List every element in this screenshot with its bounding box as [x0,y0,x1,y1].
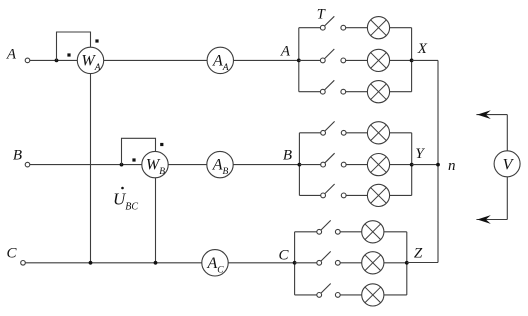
switch SA3 blade [325,80,335,90]
wire lamp-bank A left vertical [298,28,300,92]
junction dot neutral at Y [436,163,440,167]
wire bank B bottom lamp to right rail [390,194,412,196]
wire AC to lamp bank C [228,262,294,264]
wire bank A top switch to lamp [346,27,368,29]
dot above U_BC (phasor dot) [121,187,124,190]
wire lamp-bank C left vertical [294,232,296,295]
wire bank C middle branch to switch [295,262,317,264]
wire WB to ammeter AB [168,164,207,166]
switch SA1 blade [325,16,335,26]
junction dot lamp-bank B input [298,163,302,167]
wire bank C bottom switch to lamp [340,294,362,296]
switch SB2 throw (open circle) [341,162,346,167]
wire lamp-bank A right vertical [411,28,413,92]
lamp LB1 (circle with X) [367,122,389,144]
wire bank B top lamp to right rail [390,132,412,134]
ammeter A_B (U4) [207,151,233,177]
junction dot WB return on C wire [154,261,158,265]
wire voltmeter bottom lead vertical [506,177,508,220]
wire bank B bottom branch to switch [299,194,320,196]
wire neutral bus vertical (X to Z) [437,60,439,262]
switch SC3 blade [321,284,331,294]
junction dot WB voltage tap on phase B [120,163,124,167]
wire WB voltage-coil loop [122,138,156,164]
wire bank C bottom branch to switch [295,294,317,296]
svg-text:A: A [280,43,291,59]
wire bank C top branch to switch [295,231,317,233]
wire bank B output to neutral bus [412,164,438,166]
wire voltmeter top lead horizontal [476,114,507,116]
wire bank B middle switch to lamp [346,164,367,166]
svg-text:B: B [13,148,22,164]
junction dot lamp-bank C output [405,261,409,265]
wire bank A middle lamp to right rail [390,59,412,61]
lamp LB2 (circle with X) [367,154,389,176]
svg-text:n: n [448,158,456,174]
switch SC2 throw (open circle) [335,260,340,265]
junction dot lamp-bank B output [410,163,414,167]
arrow voltmeter top probe (points left) [477,110,491,119]
wire AA to lamp bank A [234,59,299,61]
switch SA2 throw (open circle) [341,58,346,63]
junction dot lamp-bank A output [410,59,414,63]
switch SB2 blade [325,153,335,163]
wire bank B middle branch to switch [299,164,320,166]
wattmeter W_A (U1) [77,47,103,73]
switch SA3 pole (open circle) [320,89,325,94]
ammeter A_A (U2) [207,47,233,73]
switch SB1 pole (open circle) [321,130,326,135]
lamp LB3 (circle with X) [367,184,389,206]
switch SC1 blade [321,220,331,230]
wire bank C middle switch to lamp [340,262,362,264]
svg-text:T: T [317,6,326,22]
switch SA2 pole (open circle) [320,58,325,63]
junction dot WA return on C wire [89,261,93,265]
switch SB3 blade [325,184,335,194]
switch SA2 blade [325,49,335,59]
lamp LA1 (circle with X) [367,17,389,39]
wire WA voltage-coil loop [57,32,91,60]
polarity mark * WB voltage coil [160,143,163,146]
switch SB2 pole (open circle) [321,162,326,167]
switch SB1 blade [325,121,335,131]
arrow voltmeter bottom probe (points left) [477,215,491,224]
switch SC1 throw (open circle) [335,229,340,234]
wire bank B top branch to switch [299,132,320,134]
polarity mark * WA voltage coil [95,39,98,42]
wire bank A top lamp to right rail [390,27,412,29]
wire bank A output to neutral bus [412,59,438,61]
junction dot WA voltage tap on phase A [55,59,59,63]
switch SB3 throw (open circle) [341,193,346,198]
wire neutral bus to bank C output [407,262,438,264]
wire lamp-bank C right vertical [406,232,408,295]
wire bank C bottom lamp to right rail [384,294,407,296]
terminal C (open circle) [21,261,26,266]
wire bank C middle lamp to right rail [384,262,407,264]
lamp LA2 (circle with X) [367,49,389,71]
wire bank B bottom switch to lamp [346,194,367,196]
switch SC1 pole (open circle) [317,229,322,234]
wire bank A bottom lamp to right rail [390,91,412,93]
switch SC2 blade [321,251,331,261]
wire bank C top lamp to right rail [384,231,407,233]
svg-text:C: C [6,246,17,262]
terminal B (open circle) [25,162,30,167]
wire WA voltage-coil return to phase C [90,74,92,263]
junction dot lamp-bank A input [297,59,301,63]
polarity mark * WA current coil [67,53,70,56]
svg-text:A: A [6,47,17,63]
wire B-input to wattmeter WB [30,164,142,166]
wire A-input to wattmeter WA [30,59,78,61]
lamp LC1 (circle with X) [362,221,384,243]
switch SB1 throw (open circle) [341,130,346,135]
wire WB voltage-coil return to phase C [155,178,157,263]
wire lamp-bank B right vertical [411,133,413,196]
switch SA1 pole (open circle) [320,25,325,30]
switch SA3 throw (open circle) [341,89,346,94]
voltmeter V (U6) [494,151,520,177]
wire bank A bottom switch to lamp [346,91,368,93]
svg-text:X: X [417,41,428,57]
svg-text:B: B [283,147,292,163]
ammeter A_C (U5) [202,250,228,276]
svg-text:C: C [278,247,289,263]
terminal A (open circle) [25,58,30,63]
switch SB3 pole (open circle) [321,193,326,198]
wire C-input to ammeter AC [25,262,202,264]
junction dot lamp-bank C input [293,261,297,265]
switch SC3 throw (open circle) [335,293,340,298]
wire voltmeter bottom lead horizontal [476,219,507,221]
wire bank A bottom branch to switch [299,91,321,93]
wire bank B middle lamp to right rail [390,164,412,166]
svg-text:Z: Z [414,246,423,262]
wire bank B top switch to lamp [346,132,367,134]
wire voltmeter top lead vertical [506,115,508,151]
lamp LC3 (circle with X) [362,284,384,306]
switch SC3 pole (open circle) [317,293,322,298]
wire bank C top switch to lamp [340,231,362,233]
wattmeter W_B (U3) [142,151,168,177]
wire bank A middle switch to lamp [346,59,368,61]
switch SA1 throw (open circle) [341,25,346,30]
wire WA to ammeter AA [104,59,207,61]
wire bank A top branch to switch [299,27,321,29]
wire lamp-bank B left vertical [298,133,300,196]
lamp LA3 (circle with X) [367,81,389,103]
wire AB to lamp bank B [233,164,299,166]
polarity mark * WB current coil [132,158,135,161]
lamp LC2 (circle with X) [362,252,384,274]
switch SC2 pole (open circle) [317,260,322,265]
wire bank A middle branch to switch [299,59,321,61]
